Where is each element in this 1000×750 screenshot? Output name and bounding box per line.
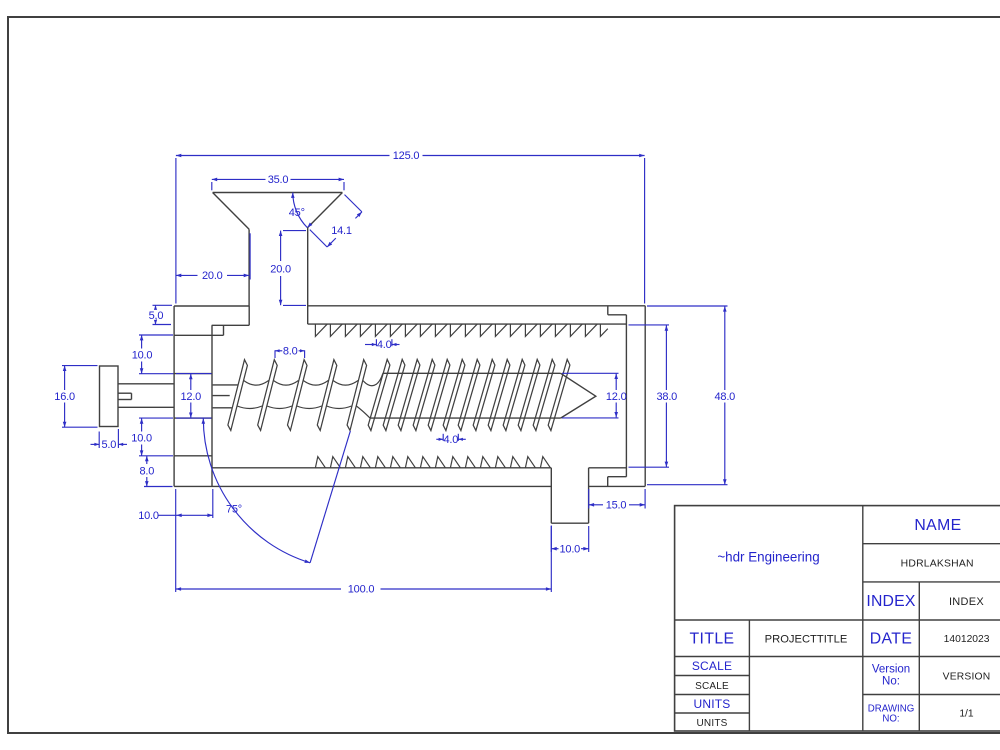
svg-text:VERSION: VERSION bbox=[943, 672, 991, 683]
svg-text:20.0: 20.0 bbox=[202, 270, 223, 282]
svg-text:TITLE: TITLE bbox=[689, 631, 734, 648]
svg-text:14.1: 14.1 bbox=[331, 225, 352, 237]
svg-text:35.0: 35.0 bbox=[268, 174, 289, 186]
dimension 20.0 horizontal bbox=[176, 233, 250, 282]
svg-text:NAME: NAME bbox=[914, 517, 961, 534]
svg-text:20.0: 20.0 bbox=[270, 263, 291, 275]
dimension 8.0 bottom left step bbox=[139, 456, 172, 487]
svg-text:UNITS: UNITS bbox=[697, 718, 728, 729]
svg-text:12.0: 12.0 bbox=[180, 391, 201, 403]
svg-text:8.0: 8.0 bbox=[139, 465, 154, 477]
dimension 10.0 upper left bbox=[132, 335, 174, 374]
svg-text:48.0: 48.0 bbox=[714, 391, 735, 403]
dimension 10.0 lower left bbox=[131, 418, 173, 456]
dimension 48.0 overall height bbox=[647, 306, 735, 485]
svg-text:38.0: 38.0 bbox=[656, 391, 677, 403]
screw cone tip bbox=[561, 373, 596, 418]
dimension 16.0 handle height bbox=[54, 366, 97, 428]
svg-text:15.0: 15.0 bbox=[606, 500, 627, 512]
svg-text:5.0: 5.0 bbox=[101, 439, 116, 451]
dimension 75 degree flight angle bbox=[202, 418, 351, 563]
svg-text:100.0: 100.0 bbox=[348, 584, 375, 596]
screw coarse flights bbox=[228, 360, 367, 431]
dimension 45 degree angle bbox=[289, 193, 313, 228]
svg-text:4.0: 4.0 bbox=[377, 339, 392, 351]
barrel bottom wall bbox=[174, 468, 645, 487]
svg-text:SCALE: SCALE bbox=[695, 681, 729, 692]
svg-text:4.0: 4.0 bbox=[443, 434, 458, 446]
dimension 5,0 top step bbox=[149, 305, 172, 324]
screw fine flights bbox=[368, 359, 570, 430]
svg-text:NO:: NO: bbox=[882, 714, 899, 725]
barrel bottom liner teeth bbox=[315, 457, 550, 468]
svg-text:125.0: 125.0 bbox=[393, 150, 420, 162]
title block table bbox=[675, 506, 1000, 731]
dimension 12.0 screw root right bbox=[562, 373, 627, 418]
barrel top liner teeth bbox=[315, 324, 607, 336]
dimension 4.0 fine pitch bbox=[436, 434, 466, 446]
svg-text:PROJECTTITLE: PROJECTTITLE bbox=[765, 634, 848, 646]
dimension 15.0 bottom right bbox=[589, 489, 645, 512]
svg-text:5,0: 5,0 bbox=[149, 310, 164, 322]
hopper funnel bbox=[213, 193, 343, 325]
dimension 4.0 top pitch bbox=[365, 339, 400, 351]
svg-text:10.0: 10.0 bbox=[131, 433, 152, 445]
mounting foot bbox=[551, 468, 588, 523]
dimension 5.0 handle width bbox=[91, 429, 128, 451]
svg-text:No:: No: bbox=[882, 676, 900, 688]
svg-text:~hdr Engineering: ~hdr Engineering bbox=[717, 549, 819, 564]
barrel top wall bbox=[308, 306, 646, 324]
svg-text:10.0: 10.0 bbox=[132, 350, 153, 362]
svg-text:75°: 75° bbox=[226, 504, 242, 516]
svg-text:UNITS: UNITS bbox=[694, 697, 731, 711]
svg-text:8.0: 8.0 bbox=[283, 346, 298, 358]
dimension 14.1 chamfer bbox=[310, 195, 362, 247]
plunger rod bbox=[118, 384, 174, 408]
svg-text:HDRLAKSHAN: HDRLAKSHAN bbox=[901, 559, 974, 570]
svg-text:DATE: DATE bbox=[870, 631, 913, 648]
svg-text:16.0: 16.0 bbox=[54, 391, 75, 403]
dimension 8.0 coarse pitch bbox=[275, 346, 305, 359]
svg-text:45°: 45° bbox=[289, 207, 305, 219]
svg-text:10.0: 10.0 bbox=[559, 543, 580, 555]
screw shaft stub bbox=[213, 385, 238, 408]
svg-text:14012023: 14012023 bbox=[944, 634, 990, 645]
dimension 35.0 hopper width bbox=[212, 174, 344, 190]
dimension 10.0 body width bottom bbox=[138, 489, 213, 592]
svg-text:Version: Version bbox=[872, 664, 910, 676]
svg-text:SCALE: SCALE bbox=[692, 659, 732, 673]
screw coarse root curves bbox=[237, 373, 383, 418]
dimension 100.0 bottom overall bbox=[176, 526, 552, 596]
dimension 12.0 bore left bbox=[176, 374, 212, 419]
svg-text:1/1: 1/1 bbox=[959, 709, 974, 720]
svg-text:10.0: 10.0 bbox=[138, 510, 159, 522]
dimension 125.0 overall length bbox=[176, 150, 645, 303]
dimension 10.0 foot width bbox=[551, 526, 588, 555]
screw fine root lines bbox=[370, 373, 561, 418]
dimension 20.0 vertical throat depth bbox=[270, 231, 306, 306]
svg-text:12.0: 12.0 bbox=[606, 391, 627, 403]
left housing body bbox=[174, 306, 249, 486]
barrel end plate bbox=[608, 306, 646, 487]
plunger handle cap bbox=[100, 366, 119, 427]
svg-text:INDEX: INDEX bbox=[949, 596, 984, 608]
dimension 38.0 chamber depth bbox=[629, 325, 678, 467]
svg-text:INDEX: INDEX bbox=[866, 593, 916, 610]
